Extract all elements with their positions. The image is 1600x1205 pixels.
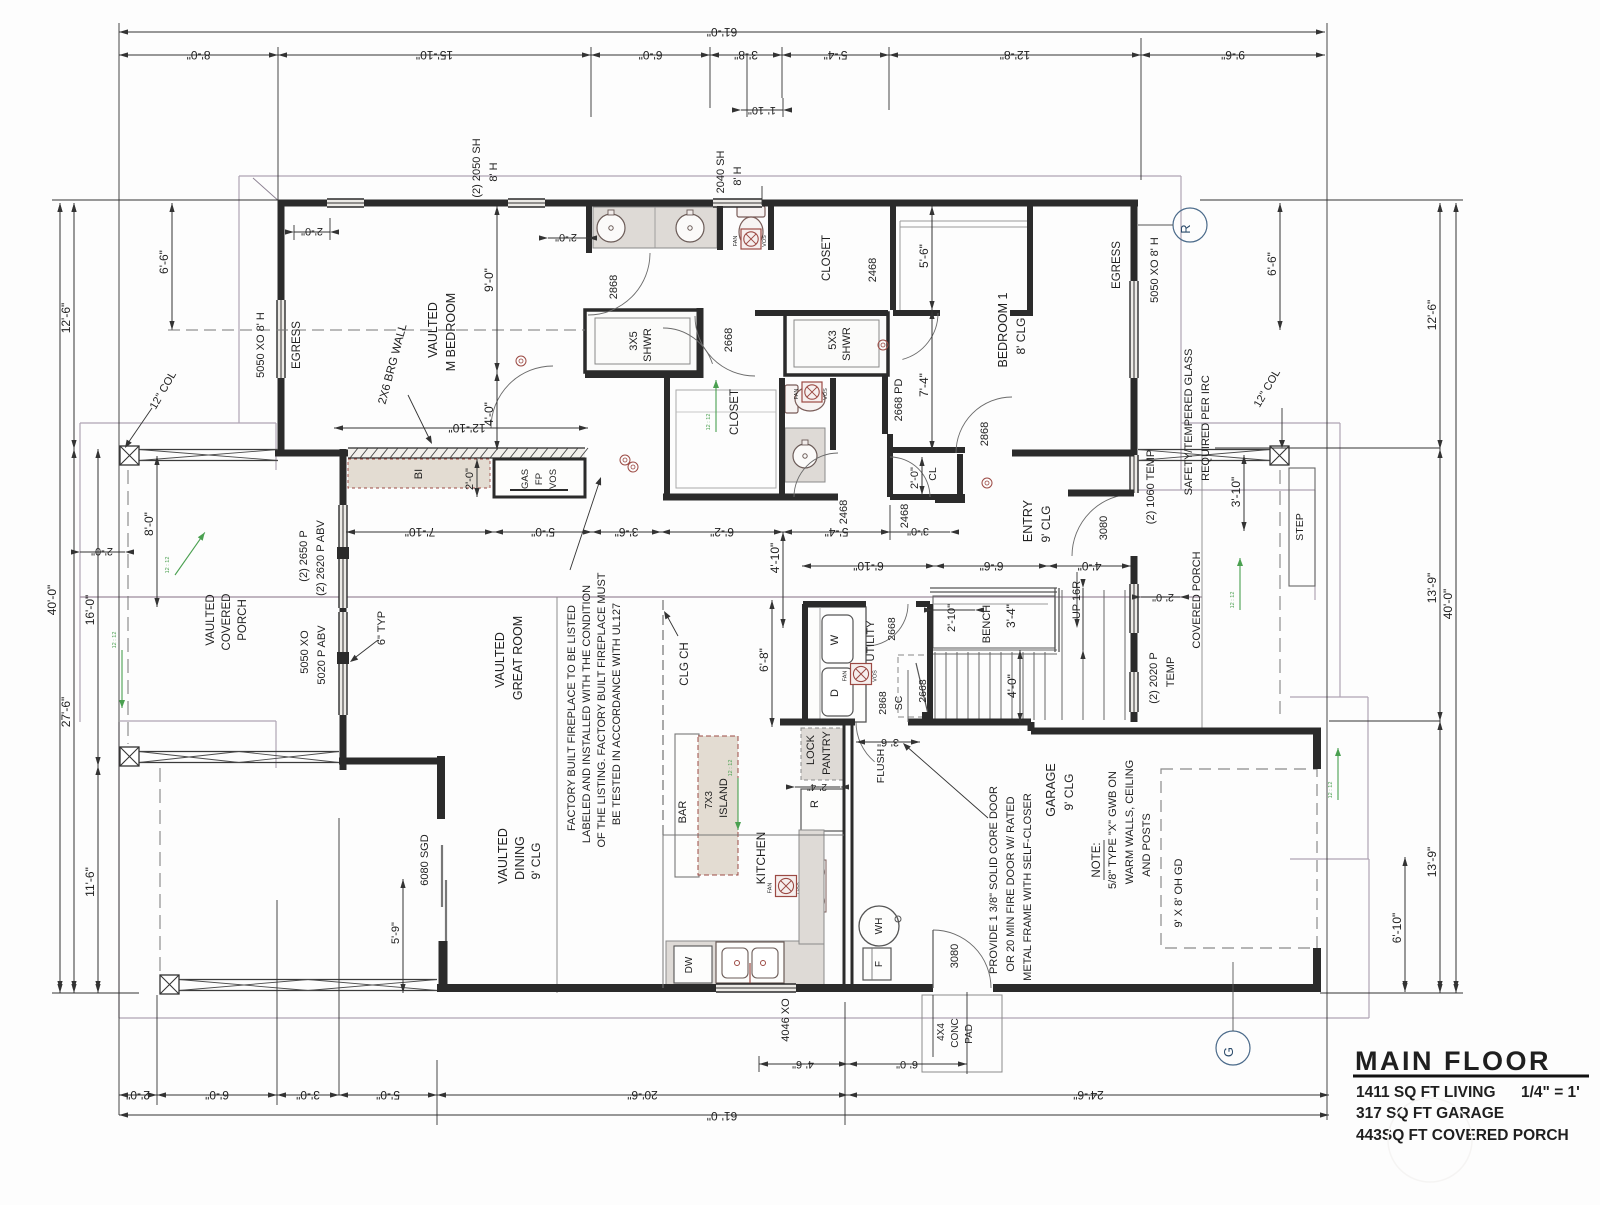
master bedroom hall door 2868 [491,366,553,428]
roof ridge line [80,596,1202,598]
washer dryer counter [806,607,866,722]
porch edge dashed [127,470,129,744]
window (2)2050 SH b [508,199,545,207]
svg-text:CLOSET: CLOSET [821,235,833,281]
flush dim [856,741,920,743]
dim 2'-0 vanity [548,237,588,239]
svg-text:1'-10": 1'-10" [748,104,776,116]
svg-text:4'-0": 4'-0" [1078,559,1102,573]
utility fan [851,664,872,685]
svg-text:4046 XO: 4046 XO [780,998,792,1042]
svg-text:VAULTED: VAULTED [205,594,217,645]
svg-text:2'-4": 2'-4" [807,781,827,792]
svg-text:FACTORY BUILT FIREPLACE TO BE: FACTORY BUILT FIREPLACE TO BE LISTED [566,605,578,831]
water heater WH [859,906,899,946]
dim row entry (6-10,6-6,4-0) [802,565,935,567]
east wall entry/bedroom [1131,200,1138,281]
svg-text:40'-0": 40'-0" [45,585,59,616]
svg-text:6'-6": 6'-6" [157,250,171,274]
window egress 5050 right [1130,281,1138,378]
hall door 2668 [695,316,755,376]
svg-text:9'-0": 9'-0" [482,268,496,292]
svg-text:LOCK: LOCK [805,734,817,765]
svg-text:FAN: FAN [794,389,800,400]
svg-text:4X4: 4X4 [936,1023,947,1041]
dim 6'-10 right [1404,857,1406,992]
porch column right [1270,446,1289,465]
svg-text:40'-0": 40'-0" [1441,589,1455,620]
svg-text:12'-6": 12'-6" [59,303,73,334]
garage man door opening 3080 [933,930,991,988]
dim 4'-0 stairs [1019,650,1021,722]
svg-text:12 : 12: 12 : 12 [112,632,118,649]
svg-text:12 : 12: 12 : 12 [1328,782,1334,799]
porch beam top-left [139,449,278,451]
ceiling break dashed M bedroom [168,329,585,331]
utility walls [803,601,866,607]
svg-text:8' CLG: 8' CLG [1014,318,1028,355]
svg-text:8'-0": 8'-0" [187,48,211,62]
coat closet door 2468 [890,457,930,497]
svg-text:2'-0": 2'-0" [91,545,113,557]
svg-text:G: G [1221,1047,1236,1057]
svg-text:WH: WH [874,918,885,935]
svg-text:R: R [809,800,821,808]
svg-text:2040 SH: 2040 SH [715,151,727,194]
svg-text:6'-10": 6'-10" [1390,913,1404,944]
svg-text:DW: DW [684,956,695,973]
svg-text:7X3: 7X3 [704,791,715,809]
svg-text:6'-10": 6'-10" [853,559,884,573]
dim 1'-10 [741,109,783,111]
ref circle R [1173,208,1207,242]
dim 4'-0 m bedroom [496,372,498,450]
M bedroom south wall [275,450,348,457]
hall/utility door 2668 [866,604,908,646]
dim 12'-10 [334,427,588,429]
svg-text:61'-0": 61'-0" [707,25,738,39]
svg-text:3'-8": 3'-8" [734,48,758,62]
svg-text:VOS: VOS [762,235,768,247]
furnace F [863,948,891,980]
svg-text:TEMP: TEMP [1165,657,1177,688]
svg-text:SAFETY/TEMPERED GLASS: SAFETY/TEMPERED GLASS [1183,349,1195,496]
svg-text:GAS: GAS [520,469,531,489]
svg-text:FP: FP [534,473,545,485]
svg-text:(2) 1060 TEMP: (2) 1060 TEMP [1145,450,1157,524]
master vanity [593,207,717,248]
svg-text:3'-6": 3'-6" [615,525,639,539]
svg-text:(2) 2620 P ABV: (2) 2620 P ABV [315,520,327,596]
svg-text:2668 PD: 2668 PD [893,379,905,422]
svg-text:UTILITY: UTILITY [865,620,877,662]
m closet door arc [663,328,713,364]
svg-text:2868: 2868 [608,275,620,299]
dim 4'-6 and 6'-0 pad [759,1063,848,1065]
svg-text:6080 SGD: 6080 SGD [419,834,431,885]
dim 2'-4 pantry [795,786,840,788]
svg-text:R: R [1178,224,1193,233]
bedroom1 south wall [1012,450,1134,457]
svg-text:6'-0": 6'-0" [639,48,663,62]
svg-text:VAULTED: VAULTED [426,302,440,358]
exterior wall top [278,200,327,207]
dim 6'-6 right [1279,203,1281,330]
dim 12'-6 left [73,203,75,449]
green arrow porch left lower [121,650,123,708]
svg-text:BEDROOM 1: BEDROOM 1 [996,292,1010,367]
left extension lines [52,199,278,201]
green arrow m closet [715,380,717,432]
gas fireplace box [494,459,585,497]
svg-text:2'-0": 2'-0" [1152,591,1174,603]
svg-text:5X3: 5X3 [827,330,839,350]
garage OH door dashed [1161,769,1317,948]
dim 9'-0 m bedroom [496,206,498,372]
svg-text:2668: 2668 [917,679,929,703]
svg-text:8' H: 8' H [488,162,500,181]
top extension lines [118,23,120,1115]
dim 5'-9 dining [402,879,404,993]
svg-text:PORCH: PORCH [237,599,249,641]
stair treads lower [934,652,936,720]
stairs west wall [927,604,933,722]
svg-text:FLUSH: FLUSH [875,749,887,783]
bedroom1 closet walls [890,203,896,310]
south wall [437,984,716,992]
svg-text:2868: 2868 [877,691,889,715]
dim 2'-0 fireplace [476,459,478,497]
svg-text:3X5: 3X5 [628,331,640,351]
hall vanity [785,428,825,482]
dim 12'-6 right [1439,203,1441,449]
svg-text:ISLAND: ISLAND [718,778,730,818]
dim 2'-0 m bedroom corner [294,231,330,233]
svg-text:STEP: STEP [1294,513,1306,540]
svg-text:27'-6": 27'-6" [59,697,73,728]
ref circle G [1216,1031,1250,1065]
svg-text:METAL FRAME WITH SELF-CLOSER: METAL FRAME WITH SELF-CLOSER [1022,793,1034,981]
svg-text:2'-10": 2'-10" [946,604,958,632]
svg-text:8' H: 8' H [732,166,744,185]
master toilet [737,206,765,217]
svg-text:3'-0": 3'-0" [296,1088,320,1102]
svg-text:6'-0": 6'-0" [896,1058,918,1070]
svg-text:5'-0": 5'-0" [376,1088,400,1102]
dim 2'-10 bench [933,609,975,611]
svg-text:MAIN FLOOR: MAIN FLOOR [1355,1046,1551,1076]
hall toilet [785,385,798,413]
bedroom1 closet shelves [900,220,1028,222]
svg-text:9' CLG: 9' CLG [1062,774,1076,811]
svg-text:4'-0": 4'-0" [1005,674,1019,698]
svg-text:CONC: CONC [950,1018,961,1047]
svg-text:2868: 2868 [979,422,991,446]
svg-text:3'-0": 3'-0" [907,525,929,537]
window 4046 XO [716,984,796,992]
svg-text:CLOSET: CLOSET [729,389,741,435]
svg-text:VOS: VOS [823,388,829,400]
dim 2'-0 porch [80,551,125,553]
kitchen pantry [801,728,845,780]
dim 8'-0 porch [156,456,158,607]
window (2)2020 P temp b [1130,672,1138,712]
svg-text:9' X 8' OH GD: 9' X 8' OH GD [1173,858,1185,927]
svg-text:PANTRY: PANTRY [821,731,833,775]
hall closet SC door [916,663,928,714]
bedroom1 door 2868 [956,397,1012,453]
svg-text:9'-6": 9'-6" [1221,48,1245,62]
svg-text:3'-4": 3'-4" [1004,604,1018,628]
svg-text:20'-6": 20'-6" [627,1088,658,1102]
svg-text:317 SQ FT GARAGE: 317 SQ FT GARAGE [1356,1105,1504,1122]
master closet walls [664,378,670,497]
svg-text:24'-6": 24'-6" [1073,1088,1104,1102]
svg-text:2468: 2468 [867,258,879,282]
svg-text:COVERED: COVERED [221,594,233,651]
dim 13'-9 right lower [1439,721,1441,993]
porch column top-left [120,446,139,465]
svg-text:5'-0": 5'-0" [531,525,555,539]
svg-text:SHWR: SHWR [841,327,853,361]
dishwasher [674,946,712,983]
svg-text:AND POSTS: AND POSTS [1141,813,1153,877]
svg-text:5'-9": 5'-9" [390,922,402,944]
dim 6'-8 kitchen [771,600,773,727]
svg-text:9' CLG: 9' CLG [1039,506,1053,543]
svg-text:REQUIRED PER IRC: REQUIRED PER IRC [1200,375,1212,481]
window egress 5050 left [277,300,285,378]
bench [933,596,1055,648]
svg-text:6'-2": 6'-2" [710,525,734,539]
window (2)2020 P temp a [1130,584,1138,633]
hall shower 5X3 [785,313,888,375]
svg-text:2468: 2468 [899,504,911,528]
kitchen sink [716,942,784,983]
dim 11'-6 left [97,766,99,993]
svg-text:6'-8": 6'-8" [757,648,771,672]
dim 61'-0 top [119,31,1325,33]
master bath door 2868 [588,253,650,315]
stair rail [930,587,1057,589]
svg-text:WARM WALLS, CEILING: WARM WALLS, CEILING [1124,760,1136,884]
hall bath door 2468 [794,453,838,497]
svg-text:3'-6": 3'-6" [877,736,899,748]
bottom extension lines [156,995,158,1105]
svg-text:12 : 12: 12 : 12 [706,414,712,431]
svg-text:PAD: PAD [964,1024,975,1044]
svg-text:COVERED PORCH: COVERED PORCH [1191,551,1203,648]
svg-text:5050 XO 8' H: 5050 XO 8' H [1149,237,1161,303]
kitchen fan [776,876,797,897]
svg-text:2668: 2668 [886,617,898,641]
svg-text:3080: 3080 [949,944,961,968]
dim 61'-0 bottom [119,1114,1329,1116]
dim 4'-10 [782,532,784,628]
svg-text:2'-0": 2'-0" [909,467,921,489]
watermark faint circle [1388,1098,1472,1182]
porch beam bottom [179,979,437,981]
svg-text:61'-0": 61'-0" [707,1109,738,1123]
svg-text:13'-9": 13'-9" [1425,573,1439,604]
svg-text:16'-0": 16'-0" [83,595,97,626]
dim 27'-6 left [73,449,75,993]
svg-text:2'-0": 2'-0" [555,231,577,243]
green arrow kitchen [737,778,739,830]
kitchen counter south [666,941,824,985]
svg-text:8'-0": 8'-0" [142,512,156,536]
svg-text:15'-10": 15'-10" [416,48,453,62]
svg-text:PROVIDE 1 3/8" SOLID CORE DOOR: PROVIDE 1 3/8" SOLID CORE DOOR [988,786,1000,974]
dim 16'-0 left [97,449,99,766]
svg-text:CL: CL [927,467,939,481]
dim row mid (7-10,5-0,3-6,6-2) [346,531,494,533]
svg-text:LABELED AND INSTALLED WITH THE: LABELED AND INSTALLED WITH THE CONDITION [581,585,593,843]
svg-text:12 : 12: 12 : 12 [728,760,734,777]
master closet shelves [676,390,776,488]
svg-text:13'-9": 13'-9" [1425,847,1439,878]
svg-text:CLG CH: CLG CH [679,642,691,685]
porch beam mid-left [139,751,339,753]
svg-text:BE TESTED IN ACCORDANCE WITH U: BE TESTED IN ACCORDANCE WITH UL127 [611,603,623,825]
svg-text:3'-10": 3'-10" [1229,477,1243,508]
svg-text:D: D [829,689,841,697]
svg-text:EGRESS: EGRESS [1111,241,1123,289]
green arrow garage [1337,748,1339,800]
stair treads upper run [1061,590,1063,720]
green arrow porch left upper [175,532,205,575]
svg-text:12 : 12: 12 : 12 [165,557,171,574]
dim 3'-0 hall [890,531,950,533]
svg-text:VAULTED: VAULTED [496,828,510,884]
porch column mid-left [120,747,139,766]
svg-text:5020 P ABV: 5020 P ABV [316,625,328,685]
refrigerator [801,789,844,831]
dining west wall + 6080 SGD [339,758,437,765]
svg-text:FAN: FAN [843,671,849,682]
svg-text:BI: BI [413,469,425,479]
svg-text:2668: 2668 [723,328,735,352]
dim 3'-10 right porch [1243,455,1245,531]
closet door 2468 bedroom1 [902,313,938,359]
island 7X3 [698,736,738,875]
great room west wall [340,449,347,505]
bar counter [675,734,699,877]
2x6 brg wall hatched fireplace wall [348,448,585,458]
coat closet walls [888,447,965,453]
4x4 conc pad [922,995,1002,1072]
svg-text:SHWR: SHWR [642,328,654,362]
svg-text:4'-6": 4'-6" [792,1058,814,1070]
svg-text:GREAT ROOM: GREAT ROOM [511,616,525,700]
garage/kitchen wall double [843,722,846,988]
svg-text:5050 XO 8' H: 5050 XO 8' H [255,312,267,378]
svg-text:1/4" = 1': 1/4" = 1' [1521,1084,1580,1101]
garage north wall [930,719,1031,726]
master bath south wall [585,372,700,378]
svg-text:EGRESS: EGRESS [291,321,303,369]
svg-text:F: F [874,961,885,967]
svg-text:OR 20 MIN FIRE DOOR W/ RATED: OR 20 MIN FIRE DOOR W/ RATED [1005,796,1017,971]
dim 40'-0 left [59,203,61,993]
dim 13'-9 right upper [1439,449,1441,721]
svg-text:6'-6": 6'-6" [980,559,1004,573]
dim 7'-4 bath col [931,310,933,450]
svg-text:W: W [829,634,841,645]
master shower 3X5 [585,310,700,372]
dim 3'-4 bench [1082,588,1084,650]
svg-text:5'-4": 5'-4" [825,525,849,539]
window (2)1060 temp [1130,455,1138,493]
porch column bottom-left [160,975,179,994]
front door 3080 opening [1072,494,1134,556]
hall bath walls [779,378,785,497]
svg-text:5'-6": 5'-6" [917,244,931,268]
svg-text:VOS: VOS [873,670,879,682]
svg-text:SC: SC [893,695,905,710]
dim 6'-6 left [171,203,173,330]
garage east wall [1313,731,1321,769]
smoke detectors [516,356,526,366]
window 5050XO 5020P [339,612,347,652]
dim 2'-0 right small [1141,596,1180,598]
under-stair closet dashed [898,655,930,717]
svg-text:7'-10": 7'-10" [405,525,436,539]
svg-text:DINING: DINING [513,836,527,880]
range [806,860,826,912]
svg-text:5'-4": 5'-4" [824,48,848,62]
kitchen north wall [780,719,805,726]
svg-text:2468: 2468 [838,500,850,524]
svg-text:BAR: BAR [677,801,689,824]
vault break line [556,597,558,993]
svg-text:FAN: FAN [733,236,739,247]
svg-text:KITCHEN: KITCHEN [754,832,768,885]
svg-text:VAULTED: VAULTED [493,632,507,688]
right extension lines [1200,199,1463,201]
svg-text:(2) 2020 P: (2) 2020 P [1148,652,1160,703]
roof overhang outline [239,175,1181,177]
svg-text:VOS: VOS [548,469,559,489]
svg-text:(2) 2050 SH: (2) 2050 SH [471,138,483,197]
svg-text:2'-0": 2'-0" [301,225,323,237]
built-in BI [348,459,490,488]
svg-text:6'-6": 6'-6" [1265,252,1279,276]
svg-text:5050 XO: 5050 XO [299,630,311,674]
svg-text:ENTRY: ENTRY [1021,499,1035,542]
svg-text:6'-0": 6'-0" [205,1088,229,1102]
svg-text:12'-6": 12'-6" [1425,300,1439,331]
svg-text:12 : 12: 12 : 12 [1230,592,1236,609]
dim row top segments [119,54,278,56]
garage south wall [993,984,1321,992]
window (2)2050 SH a [327,199,364,207]
svg-text:FAN: FAN [768,883,774,894]
dim 40'-0 right [1455,203,1457,993]
master bath walls [586,206,592,253]
svg-text:4'-10": 4'-10" [768,543,782,574]
exterior wall left (M bedroom) [278,200,285,300]
svg-text:11'-6": 11'-6" [83,867,97,897]
step [1289,468,1315,586]
svg-text:(2) 2650 P: (2) 2650 P [298,530,310,581]
porch beam top-right [1138,449,1270,451]
svg-text:9' CLG: 9' CLG [529,843,543,880]
svg-text:2'-0": 2'-0" [126,1088,150,1102]
dim row bottom segments [119,1094,157,1096]
svg-text:OF THE LISTING. FACTORY BUILT: OF THE LISTING. FACTORY BUILT FIREPLACE … [596,572,608,847]
svg-text:NOTE:: NOTE: [1091,842,1103,877]
